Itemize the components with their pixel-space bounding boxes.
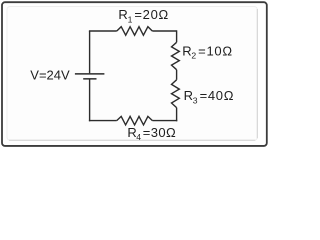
resistor R4	[117, 116, 153, 125]
inner card bottom shade	[9, 139, 255, 141]
inner card edge	[7, 7, 257, 141]
resistor R2	[172, 42, 180, 69]
resistor R1	[117, 27, 153, 36]
wire right-lower	[176, 108, 178, 122]
outer frame	[2, 2, 267, 146]
svg-text:V=24V: V=24V	[30, 68, 70, 83]
svg-text:R3=40Ω: R3=40Ω	[184, 88, 235, 105]
wire bottom-right	[152, 120, 177, 122]
wire right-upper	[176, 30, 178, 42]
battery V long plate (positive)	[75, 73, 105, 75]
wire left-lower (battery bottom to bottom-left corner)	[89, 79, 91, 121]
inner card right shade	[256, 9, 258, 138]
wire left-upper (battery top to top-left corner)	[89, 31, 91, 73]
wire bottom-left	[89, 120, 117, 122]
svg-text:R1=20Ω: R1=20Ω	[118, 7, 169, 24]
wire top-right	[152, 30, 176, 32]
svg-text:R4=30Ω: R4=30Ω	[127, 125, 176, 142]
battery V short plate (negative)	[83, 78, 96, 80]
svg-text:R2=10Ω: R2=10Ω	[182, 43, 233, 60]
resistor R3	[172, 80, 180, 108]
wire right-middle	[176, 70, 178, 80]
wire top-left	[89, 30, 117, 32]
